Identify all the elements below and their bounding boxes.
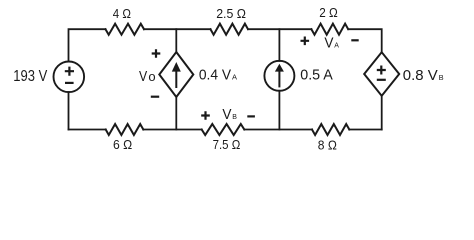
wire top between 2.5ohm and 2ohm [248, 28, 311, 30]
wire bottom between 6ohm and 7.5ohm [143, 129, 201, 131]
wire top-left segment [69, 29, 106, 61]
plus sign inside 0.8VB diamond [377, 66, 386, 75]
resistor R 8ohm zigzag [312, 124, 349, 135]
resistor R 7.5ohm zigzag [202, 124, 245, 135]
svg-text:0.8 VB: 0.8 VB [403, 67, 444, 84]
svg-text:4 Ω: 4 Ω [113, 6, 131, 21]
svg-text:7.5 Ω: 7.5 Ω [213, 137, 241, 152]
wire branch Vo top [175, 29, 177, 52]
wire branch Vo bottom [175, 97, 177, 130]
wire bottom between 7.5ohm and 8ohm [244, 129, 312, 131]
svg-text:6 Ω: 6 Ω [113, 137, 132, 152]
voltage source V1 193V circle [54, 62, 85, 93]
plus sign inside 193V source [65, 67, 74, 76]
wire left vertical below source [68, 92, 70, 129]
wire bottom-right segment [349, 129, 381, 131]
wire branch current-source top [278, 29, 280, 61]
minus sign inside 193V source [65, 82, 74, 84]
wire branch current-source bottom [278, 91, 280, 130]
dependent source U2 diamond 0.8VB [364, 52, 399, 96]
current source I1 0.5A circle [264, 61, 294, 91]
svg-text:8 Ω: 8 Ω [318, 138, 337, 153]
wire right vertical below diamond [381, 96, 383, 130]
plus sign Vo polarity top [152, 49, 161, 58]
resistor R 6ohm zigzag [106, 124, 144, 135]
plus sign VB polarity left [201, 111, 210, 120]
wire top between 4ohm and 2.5ohm [144, 28, 211, 30]
minus sign inside 0.8VB diamond [377, 79, 386, 81]
svg-text:193 V: 193 V [13, 68, 47, 85]
dependent source U1 diamond 0.4VA [159, 52, 193, 97]
plus sign VA polarity left [301, 37, 310, 46]
svg-text:2.5 Ω: 2.5 Ω [216, 6, 246, 21]
wire top-right corner segment [348, 29, 382, 52]
resistor R 4ohm zigzag [106, 24, 145, 35]
minus sign VA polarity right [351, 39, 358, 41]
resistor R 2.5ohm zigzag [211, 24, 249, 35]
svg-text:2 Ω: 2 Ω [319, 5, 338, 20]
svg-text:0.5 A: 0.5 A [300, 67, 333, 84]
arrow inside 0.4VA diamond [172, 62, 181, 88]
minus sign VB polarity right [247, 115, 255, 117]
arrow inside 0.5A current source [275, 64, 284, 88]
wire bottom-left segment [69, 129, 106, 131]
minus sign Vo polarity bottom [151, 96, 159, 98]
resistor R 2ohm zigzag [311, 24, 348, 35]
